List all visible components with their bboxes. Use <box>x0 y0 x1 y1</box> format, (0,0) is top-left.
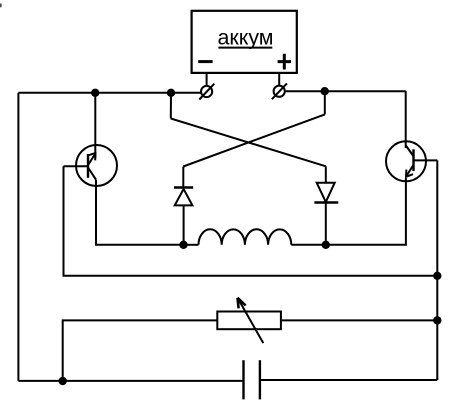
battery minus sign <box>198 60 212 63</box>
node B (left bus / cross wire) <box>167 89 175 97</box>
inductor L1 <box>184 229 326 245</box>
terminal X2 (circle with slash) <box>272 83 287 99</box>
battery B1 box <box>192 11 297 73</box>
wire D2 to inductor node <box>325 203 327 245</box>
node D (inductor left) <box>179 241 187 249</box>
rheostat R1 body <box>217 312 281 330</box>
wire bottom right corner <box>436 378 438 380</box>
wire diagonal left-to-right <box>171 119 326 167</box>
wire bottom left <box>18 380 243 382</box>
wire Q1 emitter vertical <box>94 93 96 158</box>
transistor Q2 <box>386 141 426 181</box>
node C (right bus / cross wire) <box>321 87 329 95</box>
wire Q1 base drop to lower bus <box>64 166 438 275</box>
wire rheostat right lead <box>281 319 437 321</box>
wire right top bus <box>285 90 406 92</box>
wire capacitor right to right vertical <box>260 379 437 381</box>
wire battery minus to left terminal <box>206 73 208 85</box>
wire right outer vertical <box>436 160 438 379</box>
battery label underline <box>218 47 272 49</box>
wire Q2 base lead <box>414 159 438 161</box>
node H (bottom wire junction) <box>59 377 67 385</box>
rheostat R1 arrow <box>238 298 264 343</box>
wire left top bus <box>18 92 200 94</box>
node A (left bus / Q1 emitter) <box>91 89 99 97</box>
scan smudge top-left <box>0 4 2 8</box>
transistor Q1 <box>76 145 117 186</box>
wire right transistor collector drop <box>405 91 407 148</box>
node G (right vertical / rheostat wire) <box>433 316 441 324</box>
wire inductor right to Q2 emitter <box>326 178 406 245</box>
node E (inductor right) <box>322 241 330 249</box>
terminal X1 (circle with slash) <box>199 84 214 100</box>
wire Q1 base lead <box>64 165 89 167</box>
wire rheostat left lead <box>63 320 218 381</box>
wire to diode D2 <box>325 166 327 182</box>
wire cross stub left <box>170 93 172 119</box>
wire battery plus to right terminal <box>278 73 280 85</box>
capacitor C1 <box>244 360 260 399</box>
svg-text:аккум: аккум <box>217 25 273 49</box>
diode D2 (cathode down) <box>314 183 338 203</box>
wire to diode D1 <box>182 167 184 188</box>
wire left outer vertical <box>17 93 19 381</box>
wire diagonal right-to-left <box>183 114 324 166</box>
node F (right vertical / base bus) <box>433 272 441 280</box>
wire D1 to inductor node <box>183 205 185 244</box>
diode D1 (cathode up) <box>174 188 193 206</box>
wire cross stub right <box>324 91 326 114</box>
wire Q1 collector down <box>96 180 184 245</box>
battery plus sign <box>278 54 291 70</box>
